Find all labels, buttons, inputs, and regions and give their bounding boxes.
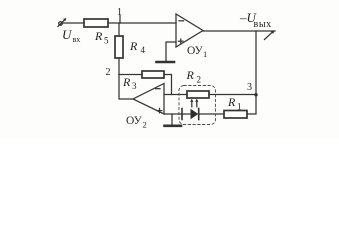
- wire R2 right to node 3: [209, 94, 256, 96]
- wire ground rail to LED anode: [172, 113, 182, 115]
- wire node 3 down to R1: [247, 95, 256, 115]
- svg-text:вх: вх: [73, 35, 81, 44]
- node 1 tick: [119, 16, 121, 24]
- svg-text:3: 3: [247, 82, 252, 93]
- op-amp OU1: [176, 14, 203, 47]
- op-amp OU2 minus sign: [156, 88, 161, 90]
- wire R1 to LED cathode: [199, 113, 224, 115]
- ground under OU1: [157, 61, 175, 64]
- wire input to R5: [63, 22, 85, 24]
- svg-text:R: R: [122, 75, 131, 89]
- svg-text:2: 2: [197, 75, 202, 85]
- op-amp OU2 (points left): [133, 84, 164, 115]
- wire R4 to node 2: [118, 58, 120, 75]
- LED wire anode bar to triangle: [182, 113, 191, 115]
- LED cathode bar: [198, 109, 200, 120]
- node 2: [119, 74, 142, 76]
- svg-text:5: 5: [104, 36, 109, 46]
- svg-text:U: U: [62, 27, 73, 42]
- LED triangle: [191, 109, 199, 120]
- wire OU1 plus input to ground: [166, 42, 176, 61]
- svg-text:1: 1: [117, 7, 122, 18]
- svg-text:2: 2: [143, 120, 147, 130]
- ground under OU2: [165, 125, 182, 128]
- svg-text:R: R: [186, 68, 195, 82]
- node 3 junction dot: [254, 93, 257, 96]
- svg-text:ОУ: ОУ: [187, 45, 204, 57]
- svg-text:1: 1: [237, 102, 242, 112]
- svg-text:R: R: [129, 39, 138, 53]
- wire output down to node 3: [255, 31, 257, 95]
- op-amp OU1 plus sign: [179, 39, 184, 43]
- op-amp OU1 minus sign: [179, 20, 184, 22]
- svg-text:2: 2: [106, 67, 111, 78]
- output terminal arrow: [265, 31, 275, 40]
- resistor R1: [224, 111, 247, 119]
- svg-text:3: 3: [132, 81, 137, 91]
- svg-text:R: R: [227, 95, 236, 109]
- wire OU2 plus input to ground: [164, 114, 172, 125]
- light arrow left: [190, 99, 193, 107]
- wire OU2 output to node 2: [119, 75, 133, 100]
- op-amp OU2 plus sign: [157, 108, 162, 112]
- resistor R5: [84, 19, 108, 27]
- wire R3 to OU2 inverting node: [164, 75, 172, 95]
- wire node1 down to R4: [118, 23, 120, 36]
- wire OU2 inverting input: [164, 94, 187, 96]
- svg-text:4: 4: [141, 45, 146, 55]
- svg-text:1: 1: [203, 49, 207, 59]
- resistor R2 (photoresistor): [187, 91, 209, 98]
- wire OU1 output rail: [203, 30, 275, 32]
- wire R5 to OU1 inverting input: [108, 22, 176, 24]
- svg-text:вых: вых: [254, 19, 272, 30]
- resistor R3: [142, 71, 164, 78]
- LED anode bar: [181, 109, 183, 120]
- svg-text:ОУ: ОУ: [126, 115, 143, 127]
- optocoupler dashed box: [179, 86, 216, 125]
- resistor R4: [115, 36, 123, 58]
- light arrow right: [195, 99, 198, 107]
- svg-text:R: R: [94, 29, 103, 43]
- input terminal Uвх: [58, 18, 66, 26]
